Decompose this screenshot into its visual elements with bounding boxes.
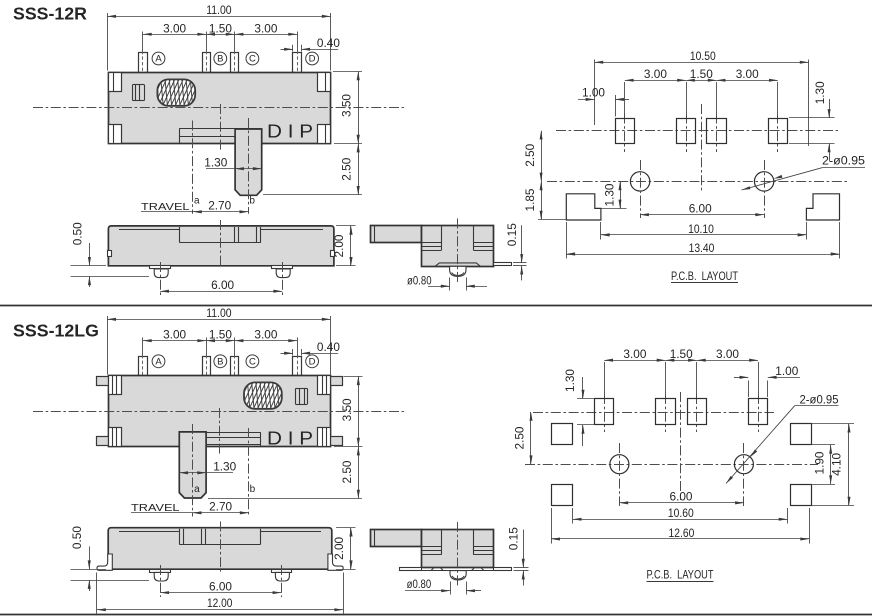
dimension 12.60 (LG pcb) (551, 508, 809, 544)
svg-text:6.00: 6.00 (209, 579, 232, 593)
dimension 1.30 (R handle width) (204, 156, 261, 171)
dimensions 3.00 / 1.50 / 3.00 (R pcb) (625, 67, 778, 82)
dimension 2.00 (R side height) (332, 226, 355, 266)
terminal lead left (LG end view) (400, 568, 422, 571)
svg-text:13.40: 13.40 (689, 241, 715, 255)
svg-text:C: C (249, 54, 256, 65)
side notch right (R side view) (331, 251, 335, 257)
svg-text:1.50: 1.50 (690, 67, 713, 81)
dimension 6.00 (R pcb) (640, 202, 764, 217)
svg-text:SSS-12LG: SSS-12LG (13, 320, 99, 340)
pad 1 (LG pcb) (595, 362, 614, 432)
hole row centerline (LG pcb) (525, 464, 818, 466)
svg-text:C: C (249, 357, 256, 368)
svg-text:B: B (217, 357, 223, 368)
svg-text:11.00: 11.00 (206, 3, 232, 17)
svg-text:D I P: D I P (267, 121, 313, 142)
dimension 10.50 (R pcb) (594, 49, 808, 146)
svg-text:3.00: 3.00 (644, 67, 667, 81)
svg-text:1.30: 1.30 (563, 369, 577, 392)
panel lines (R end view) (422, 243, 494, 251)
detent mark II (R) (133, 85, 145, 101)
svg-text:b: b (250, 484, 256, 495)
gull-wing tab bottom-right (LG) (331, 437, 343, 446)
svg-text:1.00: 1.00 (775, 364, 798, 378)
centerline position a (R) (192, 121, 194, 214)
svg-text:2-ø0.95: 2-ø0.95 (822, 156, 865, 168)
svg-text:2.50: 2.50 (340, 157, 354, 180)
bottom plane line (LG end view) (422, 570, 494, 572)
svg-text:2-ø0.95: 2-ø0.95 (800, 395, 839, 407)
dimension 1.85 (R pcb) (523, 181, 567, 219)
svg-text:0.50: 0.50 (70, 222, 84, 245)
body outline (R top view) (109, 73, 331, 144)
pin A (LG top view) (139, 355, 148, 379)
dimension 2.70 TRAVEL (R) (141, 199, 248, 214)
dimension 0.80 boss diameter (R) (407, 273, 487, 290)
hole left (R pcb) (630, 160, 649, 218)
svg-text:0.15: 0.15 (505, 223, 519, 246)
body outline (LG side view) (108, 528, 332, 570)
bottom rib left (LG end view) (431, 568, 443, 571)
dimensions 3.00 / 1.50 / 3.00 (LG pin pitch) (143, 328, 298, 356)
hole right (LG pcb) (734, 443, 753, 506)
pad row centerline (LG pcb) (533, 412, 774, 414)
corner tab top-left (R) (109, 73, 122, 92)
svg-text:1.00: 1.00 (582, 85, 605, 99)
bottom border line (0, 614, 872, 616)
label b (LG) (250, 484, 256, 495)
dimension 11.00 (LG top view) (107, 306, 330, 375)
circled label C (R) (246, 52, 259, 65)
dimension 0.50 (R standoff) (70, 222, 149, 287)
circled label B (R) (214, 52, 227, 65)
dimension 1.30 (R pcb pad height) (789, 81, 835, 161)
svg-text:2.00: 2.00 (332, 234, 346, 257)
hole row centerline (R pcb) (547, 181, 847, 183)
gull-wing lead right (LG side view) (328, 554, 343, 570)
circled label B (LG) (214, 355, 227, 368)
dimension 0.50 (LG standoff) (70, 526, 149, 591)
corner tab bottom-right (R) (318, 125, 331, 144)
svg-text:1.30: 1.30 (813, 81, 827, 104)
slider handle (R top view, position b) (235, 129, 262, 195)
dimension 6.00 (LG pcb) (619, 490, 744, 505)
TRAVEL label (LG) (131, 502, 180, 514)
dimension 1.00 (LG pcb pad width) (734, 364, 800, 397)
dimension 3.50 (R body height) (333, 72, 362, 144)
svg-text:1.90: 1.90 (813, 451, 827, 474)
circled label D (LG) (306, 355, 319, 368)
locating boss (R end view) (450, 266, 466, 276)
svg-text:0.50: 0.50 (70, 526, 84, 549)
vertical centerline (LG top view) (219, 408, 221, 454)
vertical centerline (R pcb) (701, 104, 703, 192)
dimension 2.50 (LG handle length) (208, 447, 362, 499)
dimension 10.60 (LG pcb) (573, 506, 788, 524)
corner pad top-right (LG pcb) (791, 424, 812, 445)
vertical centerline (LG end view) (457, 522, 459, 587)
svg-text:P.C.B. LAYOUT: P.C.B. LAYOUT (671, 271, 738, 283)
svg-text:3.50: 3.50 (340, 398, 354, 421)
TRAVEL label (R) (141, 201, 190, 213)
foot right (R side view) (272, 266, 293, 278)
svg-text:12.60: 12.60 (669, 526, 695, 540)
slot and handle (R side view) (179, 227, 260, 243)
svg-text:3.00: 3.00 (163, 328, 186, 342)
dimension 6.00 (R feet pitch) (160, 278, 282, 293)
gull-wing tab bottom-left (LG) (97, 437, 109, 446)
title SSS-12R (13, 4, 87, 24)
pad 1 (R pcb) (616, 82, 635, 152)
corner pad left (R pcb) (566, 194, 601, 220)
foot centerline right (LG) (281, 565, 283, 597)
svg-text:SSS-12R: SSS-12R (13, 4, 87, 24)
corner pad right (R pcb) (806, 194, 839, 220)
dimension 0.15 (R lead thickness) (505, 223, 527, 281)
knurled knob (R top view) (145, 78, 204, 106)
foot left (LG side view) (150, 570, 171, 582)
svg-text:2.50: 2.50 (523, 143, 537, 166)
label b (R) (249, 196, 255, 207)
inner vertical lines (R end view) (442, 225, 474, 250)
pin D (LG top view) (293, 355, 302, 379)
svg-text:3.00: 3.00 (623, 347, 646, 361)
dimensions 3.00 / 1.50 / 3.00 (LG pcb) (604, 347, 758, 362)
svg-text:a: a (194, 484, 200, 495)
dimension 2.00 (LG side height) (332, 528, 355, 570)
gull-wing tab top-right (LG) (331, 377, 343, 386)
horizontal centerline (LG top view) (33, 411, 404, 413)
pin B (LG top view) (203, 355, 211, 379)
DIP marking (R top view) (267, 121, 313, 142)
pad 2 (R pcb) (677, 82, 696, 152)
corner tab bottom-left (R) (109, 125, 122, 144)
top face line (LG side view) (119, 531, 321, 533)
body outline (R side view) (108, 226, 334, 266)
pin A (R top view) (139, 51, 148, 76)
svg-text:3.00: 3.00 (736, 67, 759, 81)
svg-text:1.30: 1.30 (204, 156, 227, 170)
DIP marking (LG top view) (267, 427, 313, 448)
slot and handle (LG side view) (179, 529, 260, 545)
label 2-dia0.95 with leader (R pcb) (742, 156, 866, 190)
corner tab top-right (R) (318, 73, 331, 92)
foot centerline right (R) (282, 262, 284, 296)
svg-text:6.00: 6.00 (689, 202, 712, 216)
svg-text:3.00: 3.00 (716, 347, 739, 361)
corner tab bottom-left (LG) (109, 428, 122, 447)
knurled knob (LG top view) (232, 381, 291, 409)
svg-text:11.00: 11.00 (206, 306, 232, 320)
svg-text:2.00: 2.00 (332, 537, 346, 560)
svg-text:P.C.B. LAYOUT: P.C.B. LAYOUT (647, 570, 714, 582)
pad 3 (LG pcb) (688, 362, 707, 432)
svg-text:a: a (194, 196, 200, 207)
vertical centerline (R side view) (220, 220, 222, 268)
terminal lead (R end view) (494, 263, 512, 266)
vertical centerline (LG pcb) (680, 392, 682, 500)
section separator line (0, 305, 872, 307)
gull-wing tab top-left (LG) (97, 377, 109, 386)
svg-text:3.00: 3.00 (163, 21, 186, 35)
side notch left (R side view) (108, 251, 112, 257)
handle bar (R end view) (371, 225, 422, 242)
dimension 2.50 (LG pcb) (513, 412, 533, 464)
dimension 2.70 TRAVEL (LG) (131, 500, 249, 515)
body outline (LG top view) (109, 376, 331, 447)
centerline position b (LG) (248, 428, 250, 517)
svg-text:2.70: 2.70 (209, 500, 232, 514)
corner tab top-right (LG) (318, 376, 331, 395)
svg-text:3.00: 3.00 (254, 21, 277, 35)
dimension 2.50 (R handle length) (263, 144, 362, 195)
svg-text:1.30: 1.30 (213, 460, 236, 474)
corner pad top-left (LG pcb) (552, 424, 573, 445)
svg-text:B: B (217, 54, 223, 65)
pad 3 (R pcb) (707, 82, 727, 152)
detent mark II (LG) (296, 388, 308, 404)
foot left (R side view) (150, 266, 171, 278)
svg-text:6.00: 6.00 (670, 490, 693, 504)
svg-text:0.40: 0.40 (317, 36, 340, 50)
pin B (R top view) (203, 51, 211, 76)
gull-wing lead left (LG side view) (97, 554, 112, 570)
foot centerline left (R) (160, 262, 162, 296)
hole left (LG pcb) (610, 443, 629, 506)
svg-text:ø0.80: ø0.80 (407, 273, 432, 287)
label P.C.B. LAYOUT (R) (671, 271, 738, 283)
circled label A (R) (152, 52, 165, 65)
corner tab bottom-right (LG) (318, 428, 331, 447)
dimension 1.90 (LG pcb) (811, 445, 836, 485)
svg-text:12.00: 12.00 (207, 596, 233, 610)
svg-text:1.50: 1.50 (670, 347, 693, 361)
svg-text:10.50: 10.50 (690, 49, 716, 63)
slider handle (LG top view, position a) (179, 432, 206, 498)
circled label A (LG) (152, 355, 165, 368)
svg-text:10.10: 10.10 (688, 222, 714, 236)
panel lines (LG end view) (422, 547, 494, 555)
svg-text:D: D (309, 357, 316, 368)
dimension 0.40 (LG pin width) (281, 340, 341, 355)
vertical centerline (R top view) (220, 104, 222, 151)
top face line (R side view) (119, 229, 323, 231)
pin D (R top view) (293, 51, 302, 76)
svg-text:1.30: 1.30 (602, 183, 616, 206)
corner tab top-left (LG) (109, 376, 122, 395)
centerline position a (LG) (192, 424, 194, 517)
centerline position b (R) (248, 118, 250, 214)
locating boss (LG end view) (450, 571, 466, 580)
handle bar (LG end view) (371, 530, 422, 547)
dimension 1.30 (R pcb hole offset) (601, 181, 627, 208)
pad 4 (LG pcb) (749, 362, 768, 432)
svg-text:2.70: 2.70 (208, 199, 231, 213)
corner pad bottom-right (LG pcb) (791, 485, 812, 506)
dimension 13.40 (R pcb) (566, 222, 839, 259)
svg-text:2.50: 2.50 (513, 426, 527, 449)
bottom rib (R end view) (435, 263, 480, 266)
slider slot (LG top view) (179, 432, 261, 446)
svg-text:ø0.80: ø0.80 (407, 577, 432, 591)
pad 2 (LG pcb) (656, 362, 676, 432)
svg-text:D: D (309, 54, 316, 65)
inner vertical lines (LG end view) (442, 530, 474, 555)
label 2-dia0.95 with leader (LG pcb) (726, 395, 839, 484)
body (R end view) (422, 226, 494, 267)
dimension 11.00 (R top view) (107, 3, 330, 71)
circled label C (LG) (246, 355, 259, 368)
circled label D (R) (306, 52, 319, 65)
svg-text:4.10: 4.10 (829, 453, 843, 476)
dimension 0.40 (R pin width) (281, 36, 341, 51)
label a (LG) (194, 484, 200, 495)
dimension 0.80 boss diameter (LG) (405, 577, 481, 594)
svg-text:1.50: 1.50 (209, 328, 232, 342)
svg-text:6.00: 6.00 (211, 278, 234, 292)
svg-text:10.60: 10.60 (668, 506, 694, 520)
pin C (LG top view) (231, 355, 239, 379)
svg-text:A: A (155, 54, 162, 65)
slider slot (R top view) (179, 128, 262, 143)
svg-text:3.50: 3.50 (340, 94, 354, 117)
foot centerline left (LG) (160, 565, 162, 597)
horizontal centerline (R top view) (33, 107, 404, 109)
vertical centerline (R end view) (457, 219, 459, 284)
label P.C.B. LAYOUT (LG) (647, 570, 714, 582)
svg-text:D I P: D I P (267, 427, 313, 448)
dimension 10.10 (R pcb) (601, 222, 807, 240)
hole right (R pcb) (754, 160, 773, 218)
svg-text:2.50: 2.50 (340, 460, 354, 483)
dimension 12.00 (LG overall width) (97, 573, 344, 614)
svg-text:A: A (155, 357, 162, 368)
corner pad bottom-left (LG pcb) (552, 485, 573, 506)
body (LG end view) (422, 530, 494, 568)
svg-text:3.00: 3.00 (254, 328, 277, 342)
pad 4 (R pcb) (769, 82, 788, 152)
dimension 1.30 (LG pcb pad height) (563, 369, 595, 446)
dimension 1.30 (LG handle width) (179, 460, 236, 475)
pad row centerline (R pcb) (556, 130, 838, 132)
dimension 3.50 (LG body height) (334, 376, 363, 446)
dimensions 3.00 / 1.50 / 3.00 (R pin pitch) (143, 21, 298, 51)
svg-text:b: b (249, 196, 255, 207)
svg-text:0.40: 0.40 (317, 340, 340, 354)
svg-text:0.15: 0.15 (506, 527, 520, 550)
title SSS-12LG (13, 320, 99, 340)
bottom rib right (LG end view) (472, 568, 484, 571)
dimension 4.10 (LG pcb) (811, 424, 855, 506)
dimension 6.00 (LG feet pitch) (160, 579, 281, 594)
dimension 1.00 (R pcb pad width) (578, 85, 629, 116)
foot right (LG side view) (272, 570, 292, 582)
vertical centerline (LG side view) (220, 522, 222, 572)
pin C (R top view) (231, 51, 239, 76)
svg-text:1.50: 1.50 (209, 21, 232, 35)
label a (R) (194, 196, 200, 207)
dimension 2.50 (R pcb) (523, 131, 543, 182)
svg-text:1.85: 1.85 (523, 188, 537, 211)
terminal lead right (LG end view) (494, 568, 512, 571)
dimension 0.15 (LG lead thickness) (506, 527, 528, 586)
